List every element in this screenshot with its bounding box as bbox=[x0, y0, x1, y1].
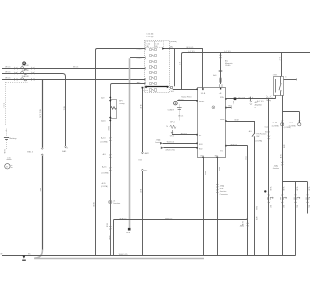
svg-text:(C/OPA): (C/OPA) bbox=[284, 126, 291, 129]
svg-text:W-B 0.5: W-B 0.5 bbox=[120, 218, 127, 220]
svg-text:J8(B): J8(B) bbox=[240, 225, 245, 227]
svg-text:J1(A): J1(A) bbox=[274, 164, 279, 167]
svg-text:W-B: W-B bbox=[108, 236, 110, 241]
svg-text:B+: B+ bbox=[11, 167, 13, 169]
svg-text:B-W: B-W bbox=[235, 119, 239, 121]
svg-text:W-L: W-L bbox=[171, 91, 174, 93]
svg-text:S2105: S2105 bbox=[265, 131, 270, 133]
svg-text:W 0.5: W 0.5 bbox=[5, 78, 11, 80]
svg-text:Junction: Junction bbox=[113, 202, 120, 205]
svg-text:W 0.5: W 0.5 bbox=[73, 67, 79, 69]
svg-text:W 0.5: W 0.5 bbox=[5, 67, 11, 69]
svg-text:B-Y 0.5: B-Y 0.5 bbox=[257, 101, 265, 103]
svg-text:1G B: 1G B bbox=[201, 93, 206, 95]
svg-text:(B): (B) bbox=[155, 46, 158, 48]
svg-text:W-L 1.25: W-L 1.25 bbox=[39, 110, 41, 119]
svg-text:C15: C15 bbox=[144, 87, 147, 89]
svg-text:W 0.5: W 0.5 bbox=[5, 71, 11, 73]
svg-text:J7(A): J7(A) bbox=[220, 184, 225, 187]
svg-text:E02: E02 bbox=[199, 149, 202, 151]
svg-text:W-B: W-B bbox=[218, 167, 220, 172]
svg-text:D10-9: D10-9 bbox=[137, 68, 142, 70]
svg-text:NSW: NSW bbox=[220, 119, 225, 121]
svg-text:W-B: W-B bbox=[106, 223, 108, 228]
svg-text:(C/OPA): (C/OPA) bbox=[100, 141, 107, 144]
svg-text:L-Y 0.5: L-Y 0.5 bbox=[224, 51, 231, 53]
svg-text:W-B: W-B bbox=[204, 171, 206, 176]
svg-text:E1: E1 bbox=[199, 135, 201, 137]
svg-text:(W-B 0.75): (W-B 0.75) bbox=[166, 150, 175, 152]
svg-text:C5-2: C5-2 bbox=[265, 127, 269, 129]
svg-text:(C/OPA): (C/OPA) bbox=[101, 185, 108, 188]
svg-text:C 15 (B): C 15 (B) bbox=[146, 36, 153, 38]
svg-text:W-B: W-B bbox=[255, 206, 257, 211]
svg-text:J7(A): J7(A) bbox=[156, 138, 161, 141]
svg-text:L 05: L 05 bbox=[7, 158, 10, 160]
svg-text:EFI: EFI bbox=[119, 100, 123, 102]
svg-text:5.0M R: 5.0M R bbox=[168, 110, 175, 112]
svg-text:W-B 0.5: W-B 0.5 bbox=[165, 218, 173, 220]
svg-text:D-13 5: D-13 5 bbox=[143, 90, 148, 92]
svg-text:1 ST1: 1 ST1 bbox=[273, 75, 278, 77]
svg-text:8: 8 bbox=[255, 107, 256, 109]
svg-text:(C/OPA): (C/OPA) bbox=[272, 125, 279, 128]
svg-text:Clutch: Clutch bbox=[225, 64, 230, 67]
svg-text:B-R: B-R bbox=[139, 189, 141, 193]
svg-text:L-Y 0.5: L-Y 0.5 bbox=[188, 51, 195, 53]
svg-text:E1: E1 bbox=[220, 151, 222, 153]
svg-text:A-5: A-5 bbox=[249, 130, 252, 133]
svg-text:GF-1: GF-1 bbox=[170, 135, 174, 137]
svg-text:D2-13: D2-13 bbox=[137, 58, 142, 60]
svg-text:W-B: W-B bbox=[3, 150, 5, 155]
svg-text:BR 0.5: BR 0.5 bbox=[181, 133, 188, 135]
svg-text:SW: SW bbox=[256, 136, 259, 138]
svg-text:W-B: W-B bbox=[244, 156, 246, 161]
svg-text:W 0.5: W 0.5 bbox=[178, 115, 183, 117]
svg-text:(C/OPA): (C/OPA) bbox=[101, 172, 108, 175]
svg-text:Battery: Battery bbox=[10, 137, 18, 140]
svg-text:E03: E03 bbox=[199, 144, 202, 146]
svg-text:W: W bbox=[0, 253, 2, 255]
svg-text:C 5: C 5 bbox=[290, 122, 293, 124]
svg-text:W-B 0.5: W-B 0.5 bbox=[167, 142, 175, 144]
svg-text:B-R: B-R bbox=[139, 105, 141, 109]
svg-text:A-15: A-15 bbox=[102, 182, 106, 185]
svg-text:W-L 0.5: W-L 0.5 bbox=[186, 47, 194, 49]
svg-text:15A EFI: 15A EFI bbox=[22, 69, 30, 72]
svg-text:15A EFI: 15A EFI bbox=[22, 75, 30, 78]
svg-text:E01: E01 bbox=[201, 155, 204, 157]
svg-text:(C/OPA): (C/OPA) bbox=[255, 140, 262, 143]
svg-text:W-B 0.5: W-B 0.5 bbox=[231, 144, 237, 146]
svg-text:W-B: W-B bbox=[92, 203, 94, 208]
svg-text:B-W: B-W bbox=[107, 127, 109, 131]
svg-text:1: 1 bbox=[26, 63, 27, 65]
svg-text:AM2: AM2 bbox=[137, 82, 141, 85]
svg-text:Amplifier: Amplifier bbox=[255, 104, 263, 107]
svg-text:W-B 1.25: W-B 1.25 bbox=[119, 254, 128, 256]
svg-text:Junction: Junction bbox=[273, 167, 279, 170]
svg-text:Connector: Connector bbox=[220, 193, 229, 196]
svg-text:W-B: W-B bbox=[126, 232, 131, 234]
svg-text:D10-15: D10-15 bbox=[137, 49, 143, 51]
svg-text:(B): (B) bbox=[146, 46, 149, 48]
svg-text:IG2: IG2 bbox=[137, 79, 140, 81]
svg-text:Junction: Junction bbox=[220, 190, 227, 193]
svg-text:B-Y 0.5: B-Y 0.5 bbox=[238, 97, 246, 99]
svg-text:E02: E02 bbox=[215, 155, 218, 157]
svg-text:C 14: C 14 bbox=[273, 122, 277, 124]
svg-text:EB1 4: EB1 4 bbox=[27, 152, 33, 154]
svg-text:(Shield): (Shield) bbox=[170, 41, 177, 43]
svg-text:MREL: MREL bbox=[199, 101, 204, 103]
